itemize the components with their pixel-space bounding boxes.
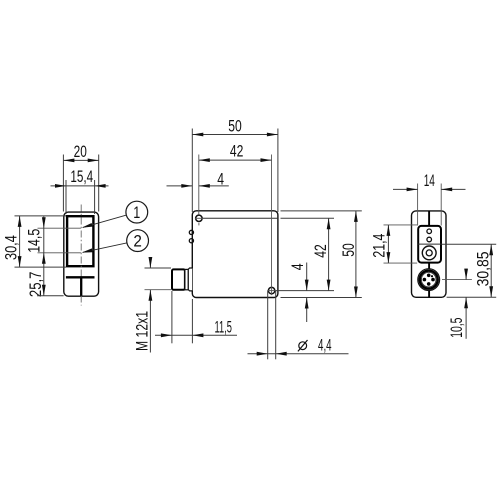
front view: LED bump 1 (189, 230, 193, 234)
right view: seam top segment (428, 211, 430, 226)
svg-text:20: 20 (74, 143, 87, 161)
dim dia 4,4 symbol (298, 340, 308, 351)
svg-text:21,4: 21,4 (371, 234, 389, 258)
dim 11,5 extension lines (172, 291, 193, 343)
front right extension lines (276, 211, 362, 298)
callout 2 leader (82, 243, 127, 253)
left view: optical window (thick rect) (67, 216, 93, 266)
left view: vertical centerline (80, 205, 82, 306)
left view: lens 1 center line (38, 227, 81, 229)
left view: fixing slot vertical bar (80, 277, 82, 296)
dim 20 line and arrows (63, 159, 98, 163)
front view: mounting hole top-left (195, 215, 203, 225)
dim 50 right text (340, 243, 358, 257)
right view: potentiometer (422, 246, 436, 260)
dim 4 top text (217, 171, 224, 189)
dim 30,85 text (474, 251, 492, 286)
callout circle 2 (127, 230, 149, 252)
front view: mounting hole bottom-right (267, 286, 276, 295)
dim 14,5 text (26, 229, 44, 253)
svg-text:30,85: 30,85 (474, 251, 492, 286)
svg-text:42: 42 (312, 244, 330, 258)
dim 42 top extension lines (199, 155, 272, 287)
svg-text:14,5: 14,5 (26, 229, 44, 253)
dim 4 right line and arrows (305, 263, 309, 323)
dim 30,4 line and arrows (18, 216, 22, 267)
right view: connector pins (423, 274, 435, 286)
dim 10,5 line and arrows (464, 269, 468, 339)
callout 1 leader (82, 215, 127, 228)
left view: fixing slot horizontal bar (66, 276, 95, 278)
svg-text:2: 2 (133, 233, 142, 251)
svg-text:10,5: 10,5 (448, 318, 466, 338)
front view: connector flange (188, 268, 192, 291)
front view: LED bump 2 (189, 239, 193, 243)
dim 15,4 extension lines (66, 180, 95, 214)
dim 15,4 line and arrows (51, 184, 109, 188)
dim 42 top text (230, 142, 244, 160)
dim 4 right text (289, 264, 307, 271)
dim 20 text (74, 143, 87, 161)
dim dia 4,4 extension lines (268, 291, 276, 359)
dim 30,85 extension lines (442, 244, 496, 297)
dim M12x1 extension lines (145, 268, 172, 290)
svg-text:30,4: 30,4 (3, 235, 21, 260)
dim 50 top line and arrows (192, 133, 278, 137)
front view: sensor body outline (192, 211, 278, 298)
dim M12x1 text (134, 311, 152, 351)
svg-text:50: 50 (340, 243, 358, 257)
dim 14 text (424, 172, 435, 190)
left view: sensor body outline (64, 212, 99, 296)
dim 10,5 text (448, 318, 466, 338)
dim 50 right line and arrows (354, 211, 358, 298)
front view: connector thread (M12) (172, 269, 185, 289)
right view: control panel (418, 226, 441, 263)
svg-text:42: 42 (230, 142, 244, 160)
svg-text:4: 4 (289, 264, 307, 271)
svg-text:4,4: 4,4 (318, 337, 332, 355)
dim 30,4 text (3, 235, 21, 260)
dim 21,4 line and arrows (387, 225, 391, 263)
svg-text:25,7: 25,7 (27, 272, 45, 298)
front view: housing seam line (203, 217, 278, 219)
right view: sensor body outline (412, 211, 447, 297)
svg-text:50: 50 (228, 117, 242, 135)
dim 11,5 text (215, 318, 232, 336)
dim dia 4,4 line and arrows (248, 352, 349, 356)
right view: panel divider line (417, 243, 442, 245)
dim M12x1 line and arrows (149, 257, 153, 353)
dim 11,5 line and arrows (155, 333, 237, 337)
dim 42 top line and arrows (199, 158, 272, 162)
dim 50 top text (228, 117, 242, 135)
dim 10,5 extension line (442, 279, 472, 281)
left body bottom extension line (37, 295, 64, 297)
dim 30,85 line and arrows (489, 244, 493, 297)
dim 14,5/25,7 line and arrows (42, 216, 46, 295)
svg-text:11,5: 11,5 (215, 318, 232, 336)
dim 30,4 extension lines (15, 216, 67, 267)
dim 42 right line and arrows (327, 218, 331, 290)
dim 25,7 text (27, 272, 45, 298)
dim 20 extension lines (63, 155, 98, 212)
left view: lens 2 center line (38, 252, 81, 254)
dim 15,4 text (70, 168, 93, 186)
dim dia 4,4 text (318, 337, 332, 355)
dim 50 top extension lines (192, 129, 278, 213)
dim 14 line and arrows (393, 188, 466, 192)
svg-text:14: 14 (424, 172, 435, 190)
dim 42 right text (312, 244, 330, 258)
dim 21,4 extension lines (384, 225, 418, 263)
dim 21,4 text (371, 234, 389, 258)
right view: LED 1 (427, 229, 432, 234)
right view: seam bottom segment (428, 263, 430, 298)
dim 14 extension lines (418, 184, 442, 226)
svg-text:4: 4 (217, 171, 224, 189)
right view: LED 2 (427, 237, 432, 242)
right view: M12 connector face (418, 269, 440, 291)
dim 4 top line and arrows (167, 184, 229, 188)
front view: connector ring groove (185, 269, 188, 289)
svg-text:1: 1 (133, 204, 140, 222)
svg-text:15,4: 15,4 (70, 168, 93, 186)
callout circle 1 (126, 201, 148, 223)
svg-text:M 12x1: M 12x1 (134, 311, 152, 351)
